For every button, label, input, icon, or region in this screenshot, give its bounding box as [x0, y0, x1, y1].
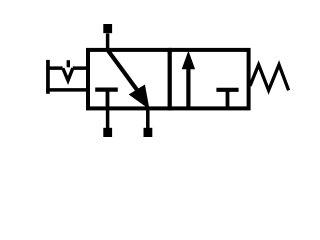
detent bottom rail	[46, 88, 90, 92]
port 1 stub bottom left	[106, 107, 110, 128]
return spring	[250, 65, 289, 91]
port 2 stub top	[106, 34, 110, 52]
detent actuator end bar	[46, 60, 50, 94]
port 1 terminal blob	[103, 128, 112, 137]
blocked port T right square	[226, 90, 230, 107]
valve V1 position square right	[170, 50, 249, 109]
port 2 terminal blob	[103, 24, 112, 33]
port 3 terminal blob	[144, 128, 153, 137]
valve V1 position square left	[88, 50, 170, 109]
blocked port T left square	[106, 90, 110, 107]
flow arrow diagonal left square	[108, 51, 138, 92]
flow arrow up right square	[186, 68, 190, 107]
port 3 stub bottom right	[146, 107, 150, 128]
detent pin	[67, 60, 70, 67]
detent notch V	[63, 68, 73, 80]
detent top rail left segment	[46, 66, 62, 70]
detent top rail right segment	[73, 66, 90, 70]
